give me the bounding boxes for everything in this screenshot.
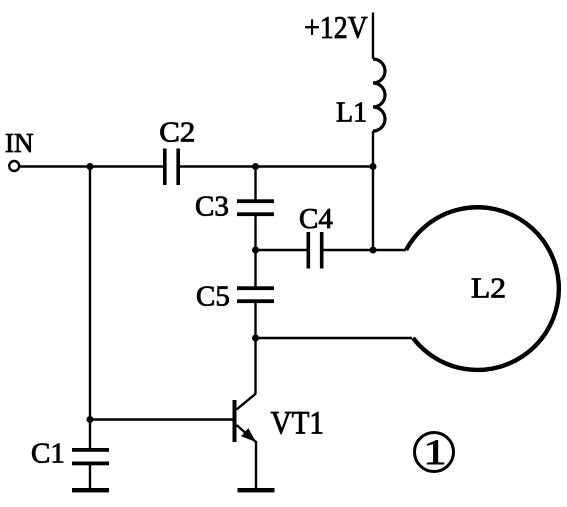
svg-text:L1: L1	[336, 97, 367, 128]
svg-text:IN: IN	[5, 128, 34, 158]
svg-text:1: 1	[423, 433, 446, 473]
svg-text:C5: C5	[196, 281, 230, 313]
svg-text:C1: C1	[31, 437, 65, 469]
svg-text:+12V: +12V	[304, 9, 368, 45]
svg-text:C4: C4	[299, 203, 333, 235]
svg-text:C3: C3	[195, 191, 229, 223]
svg-text:VT1: VT1	[271, 406, 325, 442]
svg-text:L2: L2	[471, 274, 506, 305]
svg-text:C2: C2	[159, 117, 195, 149]
